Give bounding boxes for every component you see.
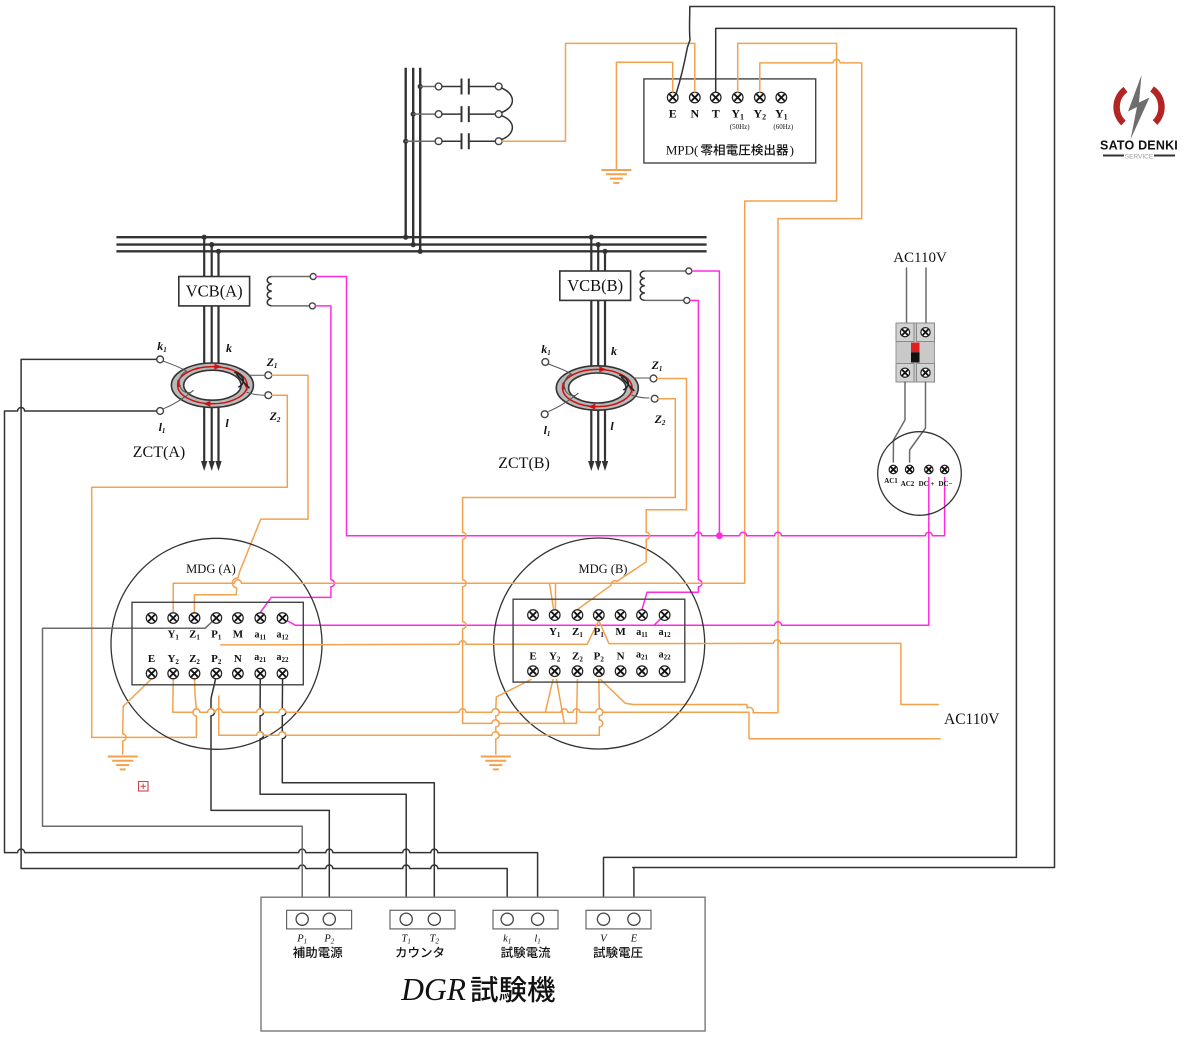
svg-text:(50Hz): (50Hz) [730,123,750,131]
3-phase horizontal bus [116,237,706,251]
outlet terminal labels [884,477,952,488]
capacitor C1 [442,86,495,88]
wire VCB(A) coil lower to MDG(A) a11 (magenta) [260,306,334,613]
wire MDG(B) Y2 V-legs (orange) [545,680,564,724]
wire ZCT(A) Z1 to MDG(A) Z1 (orange) [194,375,308,612]
svg-text:SERVICE: SERVICE [1125,154,1154,161]
MDG(B) top terminal 2 [549,610,560,621]
DGR terminal block VE (test voltage) [586,910,651,929]
svg-text:a12: a12 [659,627,672,639]
terminal circle cap C2 left [435,111,442,118]
wire ZCT(A) Z2 to MDG(A) Z2 (orange) [92,395,288,737]
MPD terminal Y2 [755,92,766,103]
MDG(B) top terminal 5 [615,610,626,621]
arrowheads feeder A [201,461,207,471]
wire coil B bottom lead [645,299,684,301]
breaker screw top-right [921,328,930,337]
svg-text:a22: a22 [277,652,290,664]
MPD terminal E [667,92,678,103]
ZCT(B) labels k1 l1 k l Z1 Z2 [541,342,666,438]
svg-text:a21: a21 [636,649,649,661]
outlet terminal AC2 [905,465,913,473]
svg-text:SATO DENKI: SATO DENKI [1100,139,1178,153]
ZCT(A) terminal k1 [157,356,164,363]
MPD terminal Y1-60Hz [776,92,787,103]
wire MDG(B) P2 drop to H_c (orange) [599,680,603,736]
svg-text:VCB(B): VCB(B) [567,276,623,295]
svg-text:E: E [630,934,638,945]
MDG(A) top row labels [167,628,289,641]
svg-text:N: N [234,653,242,665]
MDG(B) bottom terminal 1 [528,666,539,677]
SATO DENKI logo [1100,75,1178,161]
3-phase feeder vertical bus (top left) [405,68,407,237]
svg-text:AC110V: AC110V [944,711,1000,728]
svg-text:M: M [233,628,244,640]
MDG(A) bottom terminal 2 [168,668,179,679]
svg-text:l1: l1 [159,420,166,435]
wire MDG(A) Y1 to MDG(B) Y1 (orange Y1 line) [173,580,743,612]
MDG(A) bottom terminal 4 [211,668,222,679]
wire VCB(B) coil upper to magenta main (magenta) [692,271,720,536]
svg-text:MDG (A): MDG (A) [186,562,236,576]
MDG(B) generator circle [494,538,705,749]
AC110V outlet circle [878,432,962,516]
wire MPD Y2 to MDG(B) P2 (orange) [633,59,862,712]
wire MPD E to ground (orange) [616,62,672,168]
svg-text:k: k [226,341,232,355]
wire MPD N to capacitor bank (orange) [502,43,695,141]
svg-text:): ) [790,143,794,158]
feeder drop B (3 conductors bus to ZCT(B) arrows) [591,237,605,464]
svg-text:DC−: DC− [938,480,952,488]
wire MPD Y1(50Hz) to Y1 line (orange) [738,43,837,583]
wire H_c P2 link line (orange) [219,696,600,735]
arrowheads feeder B [588,461,594,471]
wire MDG(A) a22 to DGR T2 (dark) [282,674,434,913]
svg-text:a11: a11 [636,627,648,639]
svg-text:l: l [225,416,229,430]
wire MDG(A) Y2 to AC110V lower (orange long) [173,680,940,739]
MPD terminal Y1-50Hz [732,92,743,103]
svg-text:Y1: Y1 [167,628,179,641]
MDG(B) bottom terminal 6 [637,666,648,677]
ground symbol MDG(B)-E [481,756,511,758]
wire coil B top lead [645,270,686,272]
svg-text:N: N [690,107,699,121]
ground symbol MPD-E [601,169,631,171]
wire VCB(A) coil upper to DC- (magenta main) [316,277,944,536]
MDG(A) bottom terminal 6 [255,668,266,679]
wire MDG(A) a21 to DGR T1 (dark) [260,674,406,913]
MDG(B) top terminal 6 [637,610,648,621]
terminal circle cap C1 left [435,83,442,90]
svg-text:M: M [615,626,626,638]
svg-text:k1: k1 [541,342,551,357]
svg-text:l1: l1 [544,423,551,438]
svg-text:DC +: DC + [919,480,935,488]
wire MDG(A) M-area to MDG(B) P1 and AC110V upper (orange) [221,621,939,705]
svg-text:Z2: Z2 [572,650,583,663]
MPD terminal T [710,92,721,103]
terminal circle cap C3 right [495,138,502,145]
MDG(A) top terminal 1 [146,613,157,624]
MDG(A) top terminal 2 [168,613,179,624]
capacitor C3 tap junction [403,139,408,144]
svg-text:E: E [148,653,155,665]
ZCT(B) terminal k1 [542,359,549,366]
svg-text:Z2: Z2 [269,409,281,424]
svg-text:Z1: Z1 [266,355,278,370]
ZCT(A) terminal Z2 [265,392,272,399]
svg-text:ZCT(A): ZCT(A) [133,444,185,461]
VCB(A) breaker box [179,277,250,306]
wire H_b ZCT(B)Z2-line to MDG(B) Z2 (orange) [463,720,577,724]
wire MPD E to DGR E (black, outer loop) [633,7,1055,913]
ground symbol MDG(A)-E [108,756,138,758]
wire cap C2 left lead [413,113,435,115]
wire coil A top lead [272,276,310,278]
wire ZCT(B) Z2 to H_b line (orange) [463,399,676,724]
DGR terminal block T1T2 (counter) [390,910,455,929]
MPD terminal labels [669,107,794,132]
svg-text:Y2: Y2 [167,653,179,666]
terminal circle coil A top [310,274,316,280]
svg-text:P2: P2 [594,650,605,663]
red plus marker [139,782,149,792]
wire MDG(A) E to ground (orange) [123,679,152,754]
junction dots VCB(A) taps [202,235,207,240]
breaker screw bottom-left [900,368,909,377]
arc link cap1-cap2 [502,88,513,113]
junction dots VCB(B) taps [589,235,594,240]
ZCT(B) winding leads [548,364,578,412]
svg-text:Z1: Z1 [651,358,663,373]
MDG(B) bottom terminal 3 [572,666,583,677]
breaker CB body [896,323,935,382]
wire cap C3 left lead [406,140,436,142]
MDG(B) terminal block [513,599,685,682]
svg-text:AC110V: AC110V [893,250,947,266]
MPD terminal N [690,92,701,103]
MDG(A) terminal block [132,602,303,685]
MDG(A) top terminal 7 [277,613,288,624]
capacitor C2 [442,113,495,115]
ZCT(B) terminal Z1 [650,375,657,382]
svg-text:E: E [669,107,677,121]
svg-text:k: k [611,344,617,358]
svg-text:P1: P1 [211,628,222,641]
terminal circle coil A bottom [309,303,315,309]
DGR terminal block k1l1 (test current) [493,910,558,929]
svg-text:a12: a12 [277,629,290,641]
svg-text:Z2: Z2 [654,412,666,427]
svg-text:Y1: Y1 [549,626,561,639]
MDG(A) bottom terminal 7 [277,668,288,679]
MDG(B) top terminal 3 [572,610,583,621]
MDG(B) top terminal 4 [594,610,605,621]
wire MDG(A) P1 to DGR P1 (dark) [43,618,303,913]
wire AC110V supply leads [907,268,927,323]
DGR terminal block P1P2 (aux power) [287,910,352,929]
MDG(B) top terminal 7 [659,610,670,621]
ZCT(A) terminal Z1 [265,372,272,379]
wire ZCT(B) Z1 to MDG(B) Z1 (orange) [577,379,686,610]
trip coil L-B [640,271,645,300]
svg-text:Y2: Y2 [549,650,561,663]
wire MDG(B) a12 branch to magenta DC+ line [654,615,665,625]
ZCT(A) terminal l1 [157,408,164,415]
terminal circle cap C3 left [435,138,442,145]
wire breaker to AC2 [910,382,926,462]
breaker screw top-left [900,328,909,337]
svg-text:a11: a11 [254,629,266,641]
svg-text:AC2: AC2 [901,480,915,488]
svg-text:a21: a21 [254,652,267,664]
MDG(B) top row labels [549,626,671,639]
junction dots feeder-to-bus [403,235,408,240]
terminal circle cap C1 right [495,83,502,90]
svg-text:(60Hz): (60Hz) [773,123,793,131]
terminal circle cap C2 right [495,111,502,118]
DGR tester box [261,897,705,1031]
outlet terminal DC+ [925,465,933,473]
svg-text:AC1: AC1 [884,477,898,485]
ZCT(B) terminal l1 [541,411,548,418]
wire MDG(B) P2 diagonal to MPD Y2 line (orange) [601,680,634,705]
capacitor C1 tap junction [418,84,423,89]
svg-text:VCB(A): VCB(A) [186,282,243,301]
svg-text:Z2: Z2 [189,653,200,666]
MDG(B) top terminal 1 [528,610,539,621]
wire coil A bottom lead [272,305,309,307]
MPD box (zero-phase voltage detector) [644,79,816,163]
trip coil L-A [267,277,272,306]
svg-text:a22: a22 [659,649,672,661]
svg-text:P2: P2 [211,653,222,666]
MDG(A) bottom terminal 5 [233,668,244,679]
capacitor C2 tap junction [411,112,416,117]
svg-text:MPD(: MPD( [666,143,699,158]
DGR function captions [293,946,342,958]
wire MPD T to DGR V (black, inner loop) [604,28,1017,912]
arc link cap2-cap3 [502,116,513,140]
MDG(B) bottom terminal 7 [659,666,670,677]
terminal circle coil B top [686,268,692,274]
svg-text:MDG (B): MDG (B) [579,562,628,576]
junction dot magenta at VCB(B) coil branch [716,532,723,539]
MDG(B) bottom terminal 5 [615,666,626,677]
ZCT(A) labels k1 l1 k l Z1 Z2 [157,339,281,435]
DGR terminal labels row [296,934,637,946]
ZCT(B) terminal Z2 [651,395,658,402]
ZCT(B) toroid core [556,366,638,410]
MDG(B) bottom terminal 4 [594,666,605,677]
MDG(A) top terminal 5 [233,613,244,624]
capacitor C3 [442,140,495,142]
wire ZCT(A) k1 to DGR k1 (black) [21,359,507,912]
breaker screw bottom-right [921,368,930,377]
wire Y1 line drop into MDG(B) Y1 (orange V strands) [550,583,556,608]
wire MDG(B) E to ground (orange) [496,680,531,755]
MDG(A) generator circle [111,538,322,749]
outlet terminal DC- [940,465,948,473]
wire MDG(A) P2 to DGR P2 (dark) [211,674,329,913]
svg-text:ZCT(B): ZCT(B) [498,455,550,472]
MDG(A) bottom terminal 1 [146,668,157,679]
feeder drop A (3 conductors bus to ZCT(A) arrows) [204,237,218,464]
svg-text:T: T [712,107,720,121]
svg-text:E: E [529,650,536,662]
MDG(B) bottom row labels [529,649,671,663]
outlet terminal AC1 [889,465,897,473]
svg-text:l: l [610,419,614,433]
svg-text:N: N [617,650,625,662]
ZCT(A) toroid core [171,363,253,407]
MDG(A) bottom terminal 3 [189,668,200,679]
MDG(B) bottom terminal 2 [549,666,560,677]
terminal circle coil B bottom [684,297,690,303]
MDG(A) top terminal 4 [211,613,222,624]
wire MDG(B) Z2 drop (orange) [576,680,579,724]
wire MDG a12 terminals to DC+ (magenta) [282,478,928,626]
svg-text:P1: P1 [594,626,605,639]
svg-text:DGR: DGR [400,972,466,1007]
wire cap C1 left lead [420,86,435,88]
svg-text:Z1: Z1 [189,628,200,641]
svg-text:Z1: Z1 [572,626,583,639]
wire ZCT(A) l1 to DGR l1 (black) [5,408,538,913]
ZCT(A) winding leads [163,361,193,409]
breaker toggle red [911,343,920,353]
wire breaker to AC1 [893,382,905,462]
breaker toggle black [911,352,920,362]
MDG(A) top terminal 3 [189,613,200,624]
MDG(A) top terminal 6 [255,613,266,624]
svg-text:k1: k1 [157,339,167,354]
MDG(A) bottom row labels [148,652,289,666]
VCB(B) breaker box [560,271,631,300]
wire VCB(B) coil lower to MDG(B) a11 (magenta) [642,300,702,609]
